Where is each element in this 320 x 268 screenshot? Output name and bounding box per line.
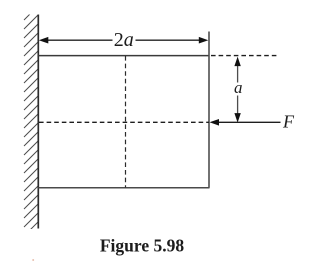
svg-text:Figure 5.98: Figure 5.98 — [100, 235, 185, 255]
svg-text:a: a — [234, 78, 243, 97]
svg-text:F: F — [282, 112, 295, 132]
svg-text:2a: 2a — [114, 29, 134, 51]
